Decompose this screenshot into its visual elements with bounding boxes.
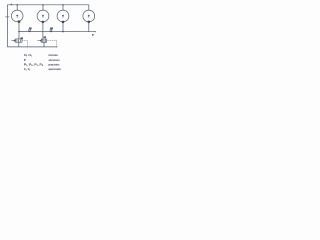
valve V2 arrowhead	[39, 39, 41, 42]
wire pump P4 down	[88, 22, 90, 32]
svg-text:sequence valves: sequence valves	[48, 67, 61, 71]
pump P3 outlet dot	[62, 21, 65, 24]
wire top manifold	[7, 4, 89, 6]
wire valve V1 to bottom	[18, 42, 20, 47]
svg-text:check valves: check valves	[48, 53, 58, 57]
junction dot riser P2	[42, 4, 44, 6]
wire riser pump P2 top	[42, 5, 44, 10]
pump P2 outlet dot	[42, 21, 45, 24]
svg-text:V1: V1	[21, 38, 23, 40]
svg-text:Ch2: Ch2	[50, 28, 53, 30]
drain line valve V1 (dashed)	[22, 41, 28, 47]
wire riser pump P1 top	[16, 5, 18, 10]
valve V1 arrowhead	[13, 39, 15, 42]
valve V1 inlet stub	[12, 40, 14, 42]
junction dot top wire left	[11, 4, 12, 5]
pump P2 circle	[37, 10, 49, 22]
svg-text:Ch1: Ch1	[29, 28, 32, 30]
svg-text:pump trains: pump trains	[48, 62, 59, 66]
pump P4 circle	[83, 10, 95, 22]
wire riser pump P3 top	[62, 5, 64, 10]
junction dot manifold P3	[62, 31, 64, 32]
valve V2 body	[41, 39, 46, 42]
svg-text:V2: V2	[44, 37, 46, 39]
pump P4 outlet dot	[88, 21, 91, 24]
pump P1 outlet dot	[18, 20, 21, 23]
wire pump P2 down	[42, 22, 44, 39]
valve V2 inner bars	[43, 39, 46, 42]
manifold end arrowhead	[95, 31, 97, 32]
pump P1 circle	[11, 10, 23, 22]
svg-text:V1, V2: V1, V2	[24, 67, 31, 72]
wire valve V2 to bottom	[43, 42, 45, 47]
wire pump P3 down	[62, 22, 64, 32]
check valve Ch2 ball	[50, 29, 52, 31]
wire bottom return	[7, 46, 57, 48]
valve V1 body	[16, 39, 22, 42]
wire delivery manifold	[19, 31, 95, 33]
pump P3 circle	[57, 10, 69, 22]
junction dot manifold Ch1	[29, 31, 30, 32]
wire left border	[6, 5, 8, 47]
svg-text:outlet pressure: outlet pressure	[48, 58, 59, 62]
drain line valve V2 (dashed)	[47, 41, 57, 47]
wire riser pump P4 top	[88, 5, 90, 10]
svg-text:P: P	[92, 33, 94, 37]
valve V2 inlet stub	[38, 40, 40, 42]
tick on left border	[5, 16, 9, 18]
junction dot manifold P1 corner	[18, 31, 19, 32]
junction dot riser P3	[62, 4, 64, 6]
pump P2 arrow	[42, 15, 44, 17]
junction dot riser P1	[16, 4, 18, 6]
junction dot manifold Ch2	[50, 31, 52, 33]
pump P4 arrow	[88, 15, 90, 17]
check valve Ch1 ball	[29, 29, 31, 31]
valve V1 inner bars	[17, 39, 20, 42]
wire pump P1 down	[18, 22, 20, 39]
svg-text:P: P	[24, 58, 26, 62]
pump P3 arrow	[62, 15, 64, 17]
pump P1 arrow	[16, 14, 18, 16]
